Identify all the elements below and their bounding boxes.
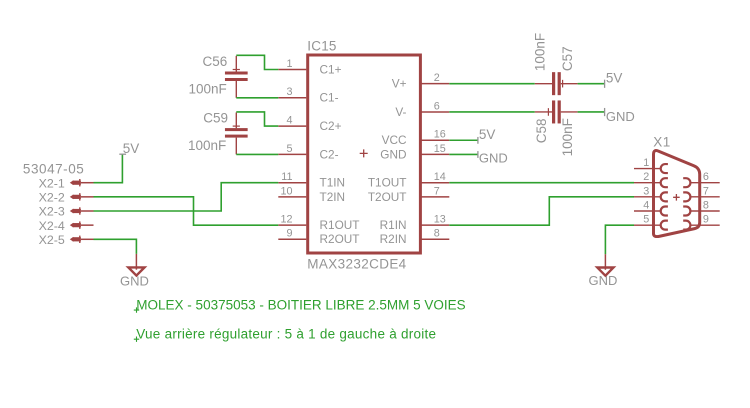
svg-text:100nF: 100nF <box>189 82 227 97</box>
X1 pin 4 stub <box>634 210 660 212</box>
supply 5V tick (VCC) <box>477 137 479 144</box>
svg-text:C1+: C1+ <box>320 62 342 76</box>
svg-text:8: 8 <box>703 199 709 211</box>
svg-text:53047-05: 53047-05 <box>23 162 84 177</box>
wire C57 to 5V <box>578 83 605 85</box>
svg-text:4: 4 <box>643 199 649 211</box>
svg-text:C56: C56 <box>203 54 228 69</box>
X1 pin 4 socket contact <box>661 207 668 216</box>
IC15 pin 5 (C2-) stub <box>278 153 306 155</box>
svg-text:R1IN: R1IN <box>380 218 407 232</box>
svg-text:C2-: C2- <box>320 147 339 161</box>
svg-text:GND: GND <box>380 147 406 161</box>
svg-text:MOLEX - 50375053 - BOITIER LIB: MOLEX - 50375053 - BOITIER LIBRE 2.5MM 5… <box>136 297 465 312</box>
X1 pin 6 stub <box>691 182 720 184</box>
connector pin X2-3 (arrow symbol) <box>70 209 74 214</box>
capacitor C57 symbol <box>535 83 552 85</box>
connector X1 origin cross <box>673 194 680 201</box>
wire C56 top to pin 1 <box>236 55 278 69</box>
annotation text origin cross 2 <box>134 337 139 342</box>
connector X1 body <box>654 151 700 237</box>
svg-text:C2+: C2+ <box>320 119 342 133</box>
svg-text:GND: GND <box>606 109 635 124</box>
ground symbol (right) <box>604 254 606 270</box>
svg-text:X2-4: X2-4 <box>39 219 65 233</box>
svg-text:4: 4 <box>286 115 292 127</box>
X1 pin 9 socket contact <box>683 221 690 230</box>
svg-text:X1: X1 <box>653 134 671 149</box>
svg-text:8: 8 <box>434 228 440 240</box>
svg-text:9: 9 <box>286 228 292 240</box>
IC15 pin 13 (R1IN) stub <box>421 224 449 226</box>
supply GND tick (pin15) <box>477 151 479 158</box>
svg-text:5: 5 <box>643 214 649 226</box>
svg-text:IC15: IC15 <box>307 39 336 54</box>
svg-text:100nF: 100nF <box>188 138 226 153</box>
svg-text:5V: 5V <box>479 127 496 142</box>
IC15 pin 7 (T2OUT) stub <box>421 196 449 198</box>
svg-text:5: 5 <box>286 143 292 155</box>
IC15 pin 8 (R2IN) stub <box>421 238 449 240</box>
svg-text:12: 12 <box>280 214 292 226</box>
wire X2-5 to GND <box>94 239 137 254</box>
svg-text:6: 6 <box>703 171 709 183</box>
wire pin13 (R1IN) to X1 pin 3 <box>449 197 634 225</box>
wire C59 bottom to pin 5 <box>236 153 278 155</box>
X1 pin 1 socket contact <box>661 164 668 173</box>
wire pin6 to C58 <box>449 111 534 113</box>
IC15 pin 6 (V-) stub <box>421 111 449 113</box>
connector pin X2-1 (arrow symbol) <box>70 180 74 185</box>
X1 pin 3 stub <box>634 196 660 198</box>
svg-text:3: 3 <box>286 86 292 98</box>
svg-text:C57: C57 <box>560 46 575 71</box>
svg-text:2: 2 <box>643 171 649 183</box>
svg-text:R2OUT: R2OUT <box>320 232 360 246</box>
svg-text:T1IN: T1IN <box>320 176 346 190</box>
svg-text:X2-5: X2-5 <box>39 233 65 247</box>
IC U1: IC15 MAX3232CDE4 body <box>308 55 421 253</box>
svg-text:VCC: VCC <box>382 133 407 147</box>
wire X2-3 to pin 11 (T1IN) <box>94 183 279 211</box>
IC15 pin 3 (C1-) stub <box>278 97 306 99</box>
X1 pin 2 stub <box>634 182 660 184</box>
IC15 origin cross <box>360 149 368 157</box>
IC15 pin 9 (R2OUT) stub <box>278 238 306 240</box>
connector pin X2-2 (arrow symbol) <box>70 194 74 199</box>
svg-text:GND: GND <box>479 151 508 166</box>
IC15 pin 2 (V+) stub <box>421 83 449 85</box>
IC15 pin 11 (T1IN) stub <box>278 182 306 184</box>
X1 pin 2 socket contact <box>661 178 668 187</box>
connector pin X2-5 (arrow symbol) <box>70 237 74 242</box>
svg-text:C59: C59 <box>203 111 228 126</box>
X1 pin 3 socket contact <box>661 192 668 201</box>
svg-text:1: 1 <box>286 58 292 70</box>
annotation text origin cross 1 <box>134 307 139 312</box>
ground symbol (left) <box>135 254 137 270</box>
svg-text:V+: V+ <box>392 77 407 91</box>
svg-text:C1-: C1- <box>320 91 339 105</box>
IC15 pin 10 (T2IN) stub <box>278 196 306 198</box>
capacitor C58 symbol <box>535 111 552 113</box>
svg-text:1: 1 <box>643 157 649 169</box>
capacitor C56 symbol <box>235 56 237 72</box>
wire X1 pin 5 to GND <box>605 225 634 254</box>
X1 pin 7 socket contact <box>683 192 690 201</box>
connector pin X2-4 (arrow symbol) <box>70 223 74 228</box>
svg-text:7: 7 <box>434 185 440 197</box>
IC15 pin 14 (T1OUT) stub <box>421 182 449 184</box>
wire X2-1 to 5V riser <box>94 154 123 182</box>
IC15 pin 15 (GND) stub <box>421 153 449 155</box>
svg-text:GND: GND <box>120 273 149 288</box>
IC15 pin 4 (C2+) stub <box>278 125 306 127</box>
svg-text:X2-1: X2-1 <box>39 176 65 190</box>
IC15 pin 1 (C1+) stub <box>278 69 306 71</box>
svg-text:C58: C58 <box>534 119 549 144</box>
svg-text:10: 10 <box>280 185 292 197</box>
svg-text:X2-3: X2-3 <box>39 205 65 219</box>
svg-text:R1OUT: R1OUT <box>320 218 360 232</box>
wire C56 bottom to pin 3 <box>236 97 278 99</box>
X1 pin 5 socket contact <box>661 221 668 230</box>
svg-text:Vue arrière régulateur : 5 à 1: Vue arrière régulateur : 5 à 1 de gauche… <box>136 326 436 341</box>
svg-text:V-: V- <box>395 105 406 119</box>
X1 pin 7 stub <box>691 196 720 198</box>
svg-text:R2IN: R2IN <box>380 232 407 246</box>
svg-text:T1OUT: T1OUT <box>368 176 407 190</box>
X1 pin 9 stub <box>691 224 720 226</box>
IC15 pin 16 (VCC) stub <box>421 139 449 141</box>
svg-text:X2-2: X2-2 <box>39 190 65 204</box>
svg-text:6: 6 <box>434 100 440 112</box>
wire pin2 to C57 <box>449 83 534 85</box>
wire C58 to GND <box>578 111 605 113</box>
svg-text:5V: 5V <box>606 70 623 85</box>
X1 pin 8 stub <box>691 210 720 212</box>
svg-text:13: 13 <box>434 214 446 226</box>
svg-text:T2IN: T2IN <box>320 190 346 204</box>
wire pin14 (T1OUT) to X1 pin 2 <box>449 182 634 184</box>
supply GND tick (right) <box>604 108 606 116</box>
X1 pin 8 socket contact <box>683 207 690 216</box>
svg-text:100nF: 100nF <box>560 118 575 156</box>
X1 pin 5 stub <box>634 224 660 226</box>
svg-text:15: 15 <box>434 143 446 155</box>
svg-text:7: 7 <box>703 185 709 197</box>
svg-text:14: 14 <box>434 171 446 183</box>
svg-text:MAX3232CDE4: MAX3232CDE4 <box>307 256 406 271</box>
X1 pin 1 stub <box>634 168 660 170</box>
svg-text:T2OUT: T2OUT <box>368 190 407 204</box>
X1 pin 6 socket contact <box>683 178 690 187</box>
wire pin16 (VCC) to 5V <box>449 139 478 141</box>
svg-text:GND: GND <box>589 273 618 288</box>
capacitor C59 symbol <box>235 112 237 128</box>
svg-text:100nF: 100nF <box>533 33 548 71</box>
wire X2-2 to pin 12 (R1OUT) <box>94 197 279 225</box>
svg-text:11: 11 <box>281 171 292 183</box>
svg-text:2: 2 <box>434 72 440 84</box>
IC15 pin 12 (R1OUT) stub <box>278 224 306 226</box>
svg-text:5V: 5V <box>123 141 140 156</box>
svg-text:3: 3 <box>643 185 649 197</box>
wire pin15 (GND) to GND <box>449 153 478 155</box>
wire C59 top to pin 4 <box>236 112 278 126</box>
supply 5V tick (X2-1) <box>119 153 126 155</box>
svg-text:9: 9 <box>703 214 709 226</box>
supply 5V tick (right) <box>604 80 606 88</box>
svg-text:16: 16 <box>434 129 446 141</box>
